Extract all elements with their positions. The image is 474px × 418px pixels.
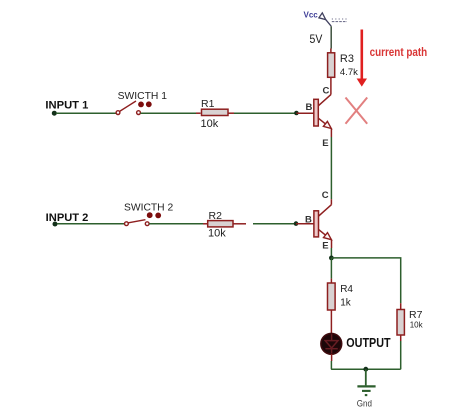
wire R7 bottom to ground rail [400,341,402,369]
wire base pin Q2 [296,223,314,225]
switch SW2 [125,220,150,226]
wire Q2 emitter down to output node [330,248,332,258]
transistor Q1 [314,77,332,137]
svg-text:B: B [306,102,313,113]
wire input1 to switch1 [56,112,116,114]
wire Q1 emitter to Q2 collector [330,137,332,199]
wire R2 to base junction Q2 [253,223,294,225]
svg-text:10k: 10k [410,320,424,329]
ground symbol [357,386,375,395]
svg-text:C: C [322,190,329,201]
svg-text:5V: 5V [310,32,323,46]
svg-text:B: B [305,215,312,226]
wire base pin Q1 [296,112,313,114]
wire output node to R7 branch top [331,258,400,303]
resistor R2 [203,221,246,227]
wire ground stem [365,369,367,385]
X mark blocked path [346,98,368,124]
node INPUT1 terminal dot [52,111,57,116]
svg-text:1k: 1k [340,298,352,309]
svg-text:INPUT 1: INPUT 1 [45,100,88,112]
current path arrow [357,30,367,87]
power terminal Vcc arrow symbol [319,13,331,26]
wire R1 to base junction Q1 [234,112,295,114]
wire switch2 to R2 [149,223,203,225]
resistor R3 [328,49,335,78]
resistor R1 [196,109,234,115]
svg-text:R1: R1 [201,98,215,110]
junction dot ground tap [363,367,368,372]
svg-text:Vcc: Vcc [304,11,319,20]
junction dot output node [329,256,334,261]
svg-text:OUTPUT: OUTPUT [346,336,391,350]
switch SW2 indicator dots [147,212,153,218]
svg-text:Gnd: Gnd [357,398,372,409]
svg-text:INPUT 2: INPUT 2 [46,212,89,224]
svg-text:R4: R4 [340,284,353,295]
wire LED to ground rail [331,354,333,361]
node INPUT2 terminal dot [53,222,58,227]
svg-text:10k: 10k [201,118,219,130]
transistor Q2 [314,199,332,248]
svg-text:SWICTH 1: SWICTH 1 [118,91,168,102]
wire ground rail [331,368,401,370]
wire output node down to R4 [330,258,332,279]
svg-text:R7: R7 [409,309,423,321]
switch SW1 indicator dots [138,102,144,108]
switch SW1 [116,101,140,115]
svg-text:4.7k: 4.7k [340,67,358,78]
LED OUTPUT indicator [321,333,342,354]
svg-text:E: E [322,138,328,149]
junction dot base Q1 [294,111,299,116]
svg-text:SWICTH 2: SWICTH 2 [124,202,174,213]
wire input2 to switch2 [57,223,125,225]
svg-text:C: C [323,86,330,97]
wire switch1 to R1 [141,112,197,114]
wire Vcc to R3 [330,26,332,48]
svg-text:10k: 10k [208,228,226,240]
resistor R7 [397,303,404,341]
svg-text:E: E [322,240,328,251]
power terminal Vcc dashed marks [332,19,347,22]
svg-text:R3: R3 [340,53,354,65]
junction dot base Q2 [294,221,299,226]
svg-text:current path: current path [370,47,428,59]
resistor R4 [328,279,336,334]
